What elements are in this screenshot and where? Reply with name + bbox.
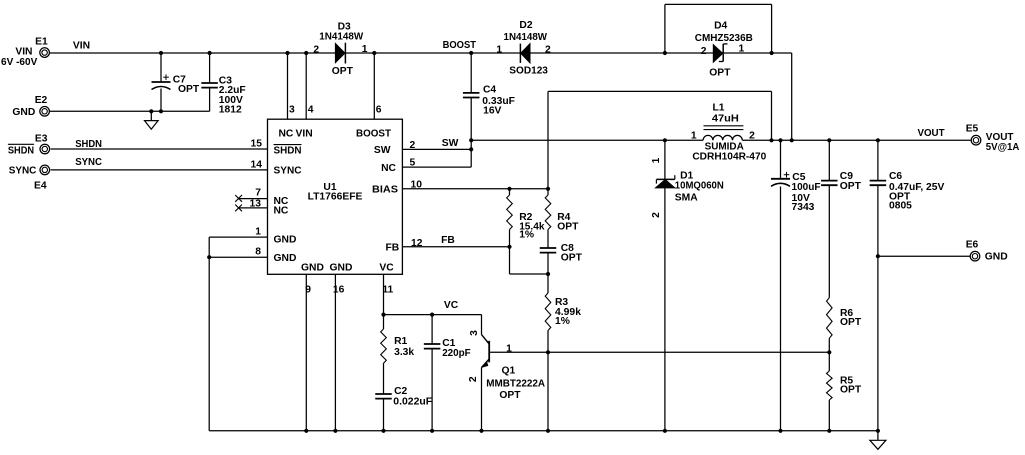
wire C9 branch top — [828, 140, 830, 180]
wire E6 GND — [878, 255, 971, 257]
wire Q1 emitter to bus — [481, 368, 483, 431]
svg-text:GND: GND — [330, 262, 353, 273]
junction at 771.5,140.3 — [769, 138, 773, 142]
svg-text:VIN: VIN — [73, 40, 90, 51]
svg-text:VIN: VIN — [296, 128, 313, 139]
wire R1 to C2 — [383, 363, 385, 394]
U1 pin number 13 — [250, 198, 262, 209]
svg-text:BOOST: BOOST — [356, 128, 392, 139]
svg-text:220pF: 220pF — [442, 348, 471, 359]
junction at 780.5,140.3 — [778, 138, 782, 142]
svg-text:L1: L1 — [712, 102, 724, 113]
wire BIAS to VOUT riser — [547, 91, 549, 188]
svg-text:2: 2 — [468, 376, 479, 382]
junction at 151.3,111.3 — [149, 109, 153, 113]
svg-text:6V -60V: 6V -60V — [1, 57, 37, 68]
svg-text:11: 11 — [382, 285, 393, 296]
wire SW node to L1 — [471, 139, 703, 141]
wire NC pin 13 stub — [238, 207, 267, 209]
svg-text:1: 1 — [496, 44, 502, 55]
wire R1 top — [383, 315, 385, 329]
junction at 471.2,140.3 — [469, 138, 473, 142]
junction at 471.2,149.4 — [469, 147, 473, 151]
capacitor C8 — [540, 243, 583, 263]
svg-text:5: 5 — [410, 158, 416, 169]
junction at 664.9,53 — [663, 51, 667, 55]
terminal E3 — [8, 133, 50, 156]
svg-text:OPT: OPT — [499, 390, 521, 401]
junction at 471.2,53 — [469, 51, 473, 55]
wire R3 top lead — [547, 274, 549, 293]
terminal E2 — [12, 95, 49, 118]
svg-text:R1: R1 — [394, 336, 407, 347]
svg-text:3.3k: 3.3k — [394, 347, 414, 358]
wire pin 16 drop — [334, 274, 336, 431]
capacitor C7 — [152, 74, 200, 95]
svg-text:NC: NC — [279, 128, 294, 139]
svg-text:1%: 1% — [519, 229, 534, 240]
svg-text:VC: VC — [444, 300, 459, 311]
wire C9 to R6 — [828, 185, 830, 297]
terminal E6 — [966, 239, 1008, 262]
svg-text:10MQ060N: 10MQ060N — [675, 180, 724, 191]
svg-text:GND: GND — [301, 262, 324, 273]
wire BIAS pin 10 — [402, 188, 548, 190]
U1 pin number 2 — [410, 140, 416, 151]
U1 pin number 1 — [255, 227, 261, 238]
svg-text:2: 2 — [410, 140, 416, 151]
net label BOOST — [443, 40, 477, 51]
svg-text:SW: SW — [442, 138, 459, 149]
svg-text:VOUT: VOUT — [917, 128, 945, 139]
wire R5 top — [828, 352, 830, 371]
net label FB — [441, 235, 455, 246]
net label VIN — [73, 40, 90, 51]
U1 pin number 7 — [255, 188, 261, 199]
junction at 829.3,430.8 — [827, 429, 831, 433]
svg-text:15: 15 — [251, 139, 263, 150]
svg-text:E6: E6 — [966, 239, 979, 250]
svg-text:OPT: OPT — [840, 181, 862, 192]
wire R2 leads — [509, 189, 511, 247]
svg-text:2: 2 — [749, 130, 755, 141]
junction at 481.5,430.8 — [479, 429, 483, 433]
net label SW — [442, 138, 459, 149]
svg-text:100uF: 100uF — [792, 182, 821, 193]
svg-text:NC: NC — [274, 206, 289, 217]
svg-text:SOD123: SOD123 — [509, 65, 548, 76]
svg-text:CDRH104R-470: CDRH104R-470 — [692, 151, 766, 162]
wire L1 to VOUT rail and E5 — [742, 139, 971, 141]
svg-text:0805: 0805 — [889, 200, 912, 211]
wire VC line — [384, 314, 482, 316]
junction at 161,111.3 — [159, 109, 163, 113]
U1 pin number 6 — [376, 104, 382, 115]
wire Q1 collector — [481, 315, 483, 335]
wire R4 leads — [547, 189, 549, 249]
junction at 509.5,188.8 — [507, 187, 511, 191]
svg-text:C2: C2 — [394, 386, 407, 397]
junction at 548,274 — [546, 272, 550, 276]
svg-text:NC: NC — [381, 163, 396, 174]
junction at 306.2,53 — [304, 51, 308, 55]
svg-text:SHDN: SHDN — [75, 139, 102, 150]
junction at 877.9,256.2 — [876, 254, 880, 258]
svg-text:8: 8 — [255, 247, 261, 258]
resistor R6 OPT — [827, 298, 862, 339]
svg-text:SYNC: SYNC — [75, 157, 102, 168]
capacitor C9 — [821, 171, 862, 192]
junction at 161,53 — [159, 51, 163, 55]
svg-text:1: 1 — [362, 44, 368, 55]
U1 pin number 15 — [251, 139, 263, 150]
svg-text:5V@1A: 5V@1A — [986, 142, 1020, 153]
wire pin 4 drop — [305, 53, 307, 119]
svg-text:D4: D4 — [714, 21, 727, 32]
wire R2 bottom link down — [509, 247, 511, 274]
svg-text:OPT: OPT — [709, 67, 731, 78]
svg-text:7343: 7343 — [792, 202, 815, 213]
capacitor C1 — [424, 338, 471, 359]
svg-text:1N4148W: 1N4148W — [319, 31, 363, 42]
wire C3 branch bottom — [209, 87, 211, 111]
svg-text:1: 1 — [255, 227, 261, 238]
wire GND from E2 to C3 — [50, 110, 210, 112]
svg-text:C6: C6 — [889, 171, 902, 182]
terminal E1 — [1, 37, 49, 68]
svg-text:10: 10 — [411, 179, 423, 190]
junction at 664.9,430.8 — [663, 429, 667, 433]
U1 pin number 9 — [305, 285, 311, 296]
junction at 664.9,140.3 — [663, 138, 667, 142]
wire Q1 base line — [489, 351, 829, 353]
wire NC pin 7 stub — [238, 198, 267, 200]
svg-text:GND: GND — [274, 235, 297, 246]
wire R3 node to ground bus — [547, 352, 549, 431]
capacitor C2 — [375, 386, 432, 408]
wire SW pin 2 — [402, 148, 471, 150]
svg-text:0.022uF: 0.022uF — [393, 397, 432, 408]
svg-text:6: 6 — [376, 104, 382, 115]
svg-text:SYNC: SYNC — [9, 166, 37, 177]
wire D1 anode to bus — [664, 188, 666, 431]
svg-text:OPT: OPT — [332, 66, 354, 77]
U1 pin number 11 — [382, 285, 393, 296]
svg-text:14: 14 — [251, 159, 263, 170]
U1 pin number 16 — [333, 285, 345, 296]
U1 pin number 8 — [255, 247, 261, 258]
transistor Q1 MMBT2222A — [468, 330, 546, 401]
net label SHDN — [75, 139, 102, 150]
junction at 374.3,53 — [372, 51, 376, 55]
junction at 829.3,352.3 — [827, 350, 831, 354]
svg-text:SHDN: SHDN — [274, 146, 302, 157]
wire C5 branch top — [780, 140, 782, 179]
no-connect X pin 13 — [235, 205, 242, 212]
svg-text:OPT: OPT — [178, 84, 200, 95]
schottky diode D1 10MQ060N — [651, 157, 724, 218]
junction at 287.5,53 — [285, 51, 289, 55]
svg-text:1N4148W: 1N4148W — [504, 32, 548, 43]
wire C6 branch bottom — [877, 185, 879, 430]
wire C5 branch bottom — [780, 187, 782, 431]
svg-text:1: 1 — [506, 343, 512, 354]
svg-text:OPT: OPT — [840, 384, 862, 395]
junction at 877.9,430.8 — [876, 429, 880, 433]
svg-text:C4: C4 — [483, 85, 496, 96]
inductor L1 47uH — [691, 102, 767, 162]
svg-text:47uH: 47uH — [712, 114, 739, 125]
wire VIN rail from E1 to corner — [50, 52, 792, 54]
wire GND pin 1 — [209, 236, 267, 238]
IC U1 LT1766EFE body — [268, 119, 403, 274]
wire C1 top — [431, 315, 433, 345]
junction at 383.5,430.8 — [381, 429, 385, 433]
wire VIN rail drop to VOUT rail — [791, 53, 793, 140]
diode D2 1N4148W — [496, 20, 551, 77]
svg-text:16: 16 — [333, 285, 345, 296]
resistor R4 OPT — [545, 195, 579, 232]
svg-text:9: 9 — [305, 285, 311, 296]
svg-text:SW: SW — [374, 145, 391, 156]
wire left ground vertical — [208, 237, 210, 431]
svg-text:3: 3 — [469, 330, 480, 336]
wire C6 branch top — [877, 140, 879, 180]
capacitor C5 100uF — [771, 172, 821, 213]
wire FB pin 12 — [402, 246, 509, 248]
wire BIAS-VOUT drop — [771, 91, 773, 140]
net label SYNC — [75, 157, 102, 168]
wire C4 branch — [470, 53, 472, 167]
zener diode D4 CMHZ5236B — [695, 21, 753, 79]
svg-text:FB: FB — [441, 235, 455, 246]
svg-text:7: 7 — [255, 188, 261, 199]
svg-text:1: 1 — [691, 130, 697, 141]
U1 pin number 14 — [251, 159, 263, 170]
U1 pin number 4 — [308, 104, 314, 115]
svg-text:D2: D2 — [519, 20, 532, 31]
resistor R3 4.99k — [545, 293, 581, 331]
wire pin 3 drop — [287, 53, 289, 119]
svg-text:OPT: OPT — [840, 317, 862, 328]
wire BIAS-VOUT horizontal — [548, 90, 772, 92]
junction at 432.1,430.8 — [430, 429, 434, 433]
wire C2 to bus — [383, 398, 385, 431]
wire ground bus — [209, 430, 878, 432]
svg-text:3: 3 — [289, 104, 295, 115]
svg-text:SYNC: SYNC — [274, 166, 303, 177]
wire R6 bottom — [828, 338, 830, 352]
terminal E4 — [9, 165, 50, 192]
wire pin 6 drop — [373, 53, 375, 119]
wire ground stem bottom right — [877, 431, 879, 441]
svg-text:LT1766EFE: LT1766EFE — [308, 191, 363, 202]
wire D1 cathode — [664, 140, 666, 179]
svg-text:Q1: Q1 — [502, 366, 516, 377]
wire C7 branch — [160, 53, 162, 111]
svg-text:2: 2 — [313, 44, 319, 55]
U1 pin number 3 — [289, 104, 295, 115]
svg-text:1: 1 — [651, 157, 662, 163]
svg-text:SMA: SMA — [675, 193, 698, 204]
junction at 209.2,257.2 — [207, 255, 211, 259]
svg-text:CMHZ5236B: CMHZ5236B — [695, 33, 753, 44]
junction at 548,430.8 — [546, 429, 550, 433]
wire pin 11 drop — [383, 274, 385, 314]
svg-text:BOOST: BOOST — [443, 40, 477, 51]
junction at 877.9,140.3 — [876, 138, 880, 142]
svg-text:FB: FB — [385, 243, 399, 254]
svg-text:GND: GND — [985, 252, 1008, 263]
junction at 780.5,430.8 — [778, 429, 782, 433]
wire GND pin 8 — [209, 256, 267, 258]
no-connect X pin 7 — [235, 195, 242, 202]
svg-text:BIAS: BIAS — [372, 185, 398, 196]
net label VOUT — [917, 128, 945, 139]
resistor R2 15.4k — [507, 195, 545, 240]
junction at 209.6,53 — [208, 51, 212, 55]
junction at 829.3,140.3 — [827, 138, 831, 142]
svg-text:16V: 16V — [483, 106, 501, 117]
svg-text:E1: E1 — [35, 37, 48, 48]
wire R3 bottom to base line — [547, 331, 549, 353]
junction at 509.5,246.8 — [507, 245, 511, 249]
capacitor C6 — [870, 171, 945, 211]
capacitor C3 — [201, 76, 245, 116]
junction at 791.7,140.3 — [790, 138, 794, 142]
ground symbol input — [145, 121, 159, 130]
junction at 548,352.3 — [546, 350, 550, 354]
svg-text:GND: GND — [274, 253, 297, 264]
svg-text:E2: E2 — [35, 95, 48, 106]
svg-text:2: 2 — [701, 46, 707, 57]
junction at 548,188.8 — [546, 187, 550, 191]
wire C1 bottom — [431, 349, 433, 431]
junction at 335.4,430.8 — [333, 429, 337, 433]
svg-text:E4: E4 — [34, 181, 47, 192]
svg-text:1%: 1% — [555, 316, 570, 327]
svg-text:MMBT2222A: MMBT2222A — [486, 379, 545, 390]
wire link to C8 bottom — [510, 273, 549, 275]
wire bypass loop over D4 — [665, 4, 772, 53]
U1 pin number 5 — [410, 158, 416, 169]
svg-text:13: 13 — [250, 198, 262, 209]
wire C8 bottom lead — [547, 252, 549, 274]
svg-text:OPT: OPT — [561, 252, 583, 263]
diode D3 1N4148W — [313, 21, 367, 77]
resistor R5 OPT — [827, 371, 862, 400]
wire pin 9 drop — [305, 274, 307, 431]
svg-text:E5: E5 — [966, 124, 979, 135]
svg-text:E3: E3 — [35, 133, 48, 144]
svg-text:1: 1 — [739, 44, 745, 55]
junction at 383.5,314.6 — [381, 313, 385, 317]
junction at 306.3,430.8 — [304, 429, 308, 433]
svg-text:VC: VC — [379, 262, 394, 273]
wire R5 bottom to bus — [828, 400, 830, 431]
ground symbol output — [870, 440, 886, 449]
junction at 432.1,314.6 — [430, 313, 434, 317]
terminal E5 — [966, 124, 1020, 153]
wire NC pin 5 — [402, 166, 471, 168]
resistor R1 3.3k — [381, 329, 415, 363]
wire SYNC from E4 to pin 14 — [51, 169, 268, 171]
svg-text:2: 2 — [545, 44, 551, 55]
svg-text:1812: 1812 — [219, 105, 242, 116]
wire SHDN from E3 to pin 15 — [51, 148, 268, 150]
capacitor C4 — [463, 85, 515, 117]
wire C3 branch top — [209, 53, 211, 83]
U1 pin number 12 — [411, 238, 423, 249]
svg-text:GND: GND — [12, 107, 35, 118]
svg-text:OPT: OPT — [557, 221, 579, 232]
U1 pin number 10 — [411, 179, 423, 190]
svg-text:SHDN: SHDN — [8, 145, 34, 156]
junction at 771.6,53 — [770, 51, 774, 55]
wire ground stem near C7 — [150, 111, 152, 120]
svg-text:12: 12 — [411, 238, 423, 249]
svg-text:2: 2 — [651, 212, 662, 218]
svg-text:4: 4 — [308, 104, 314, 115]
net label VC — [444, 300, 459, 311]
